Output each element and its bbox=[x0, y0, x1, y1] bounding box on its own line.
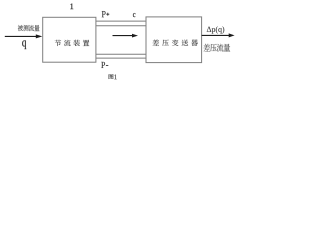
label: 被测流量 input annotation bbox=[18, 25, 40, 31]
wire: top impulse pipe double line P+ bbox=[96, 21, 146, 26]
label: minus sign of P- bbox=[106, 64, 108, 66]
label: 差压变送器 box2 text bbox=[153, 40, 198, 46]
label: Δp(q) output symbol bbox=[207, 26, 224, 33]
label: P- bbox=[101, 62, 105, 68]
arrow: output differential pressure signal bbox=[202, 33, 235, 37]
label: a tap mark above box1 bbox=[70, 4, 73, 10]
label: q flow symbol bbox=[22, 40, 26, 49]
arrow: flow direction in pipe bbox=[113, 34, 139, 38]
label: plus sign of P+ bbox=[106, 13, 109, 16]
label: P+ bbox=[102, 11, 106, 17]
label: 节流装置 box1 text bbox=[55, 40, 90, 46]
caption: 图1 figure caption bbox=[109, 74, 114, 79]
block: throttling device box (节流装置) bbox=[43, 17, 96, 62]
label: 差压流量 output annotation bbox=[203, 44, 230, 52]
wire: bottom impulse pipe double line P- bbox=[96, 54, 146, 58]
label: c pipe label bbox=[133, 13, 135, 17]
arrow: input measured flow q bbox=[5, 34, 43, 38]
block: differential pressure transmitter box (差压变送器) bbox=[146, 17, 202, 63]
